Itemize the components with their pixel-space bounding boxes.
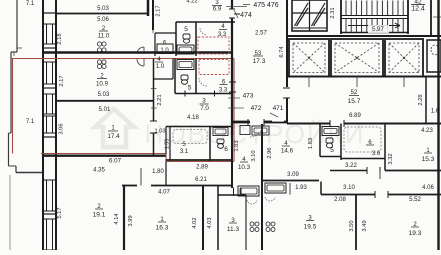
wall rooms 10.9/17.4 [56,100,154,102]
wall between apt1 apt2 [43,51,232,53]
svg-text:6.9: 6.9 [213,6,222,13]
stair tread upper [376,1,378,16]
svg-text:12.4: 12.4 [411,6,425,13]
wall toilet right right-apt [340,124,342,161]
door tick 474 a [234,13,240,15]
door tick hall f [263,119,265,126]
radiator apt2 [97,60,101,64]
vent shaft block [292,0,327,31]
wall above 19.3 a [356,194,375,196]
wall x153 apt2 b [153,133,155,155]
wall loggia outer lower-left [8,133,10,166]
elevator leader 1 [308,77,310,88]
door tick hall b [229,91,236,93]
svg-text:6.07: 6.07 [109,158,122,165]
svg-text:3.10: 3.10 [343,185,355,191]
appliance 2 [265,183,286,193]
door leaf right-apt hall [379,171,381,180]
washing machine right [322,127,339,136]
wall hall right-apt [330,170,367,172]
facade wall left [42,0,44,250]
appliance hall b [252,126,269,135]
svg-text:5: 5 [330,147,334,154]
door tick 474 top [229,8,235,10]
svg-text:7.1: 7.1 [26,119,35,125]
washing machine apt2 [177,60,194,70]
wall hall bottom b [264,121,272,123]
door tick 11.3 a [233,188,235,197]
bathtub right-apt dashed [344,127,381,152]
stair tread lower [366,19,368,33]
svg-text:16.3: 16.3 [156,225,169,232]
window room 10.9 [47,62,53,84]
svg-text:4.18: 4.18 [187,115,199,121]
door tick hall e [247,119,249,126]
door arc apt2 [137,59,144,66]
wall room4 right apt2 [172,59,174,80]
tick loggia2 [13,52,15,56]
door tick hall c [283,87,290,89]
wall x153 apt2 a [153,59,155,122]
washing machine wetblock [213,128,228,136]
wall left of 19.3 [355,195,357,251]
door tick 474 bottom [229,17,235,19]
svg-text:3.06: 3.06 [59,123,65,134]
wall connector [165,162,167,186]
wall loggia outer top-left [16,0,18,52]
svg-text:2.21: 2.21 [157,94,163,105]
door tick 11.3 b [240,188,242,197]
wall hall bottom a [232,121,250,123]
svg-text:4.35: 4.35 [93,168,105,174]
riser circles right [266,222,270,226]
elevator 3 [385,39,423,77]
stair tread lower [397,19,399,33]
svg-text:3.99: 3.99 [128,215,134,226]
red dashed wardrobe 3.3 apt2 [199,60,229,75]
leader 471 [270,113,278,117]
wall x431 top-right [430,0,432,36]
facade tick [43,12,56,14]
elevator 2 [331,39,383,77]
wall room5 left apt1 [175,22,177,56]
door tick corr b [343,120,345,127]
svg-text:5.01: 5.01 [99,107,111,113]
svg-text:472: 472 [251,105,262,112]
wall room 3.3 left apt1 [195,22,197,56]
wall vertical x148 top [147,0,150,16]
facade tick [43,136,56,138]
svg-text:1.83: 1.83 [234,140,240,151]
wall x232 lower [231,135,233,188]
wall hall 19.1 b [151,185,232,187]
stair tread upper [355,1,357,16]
toilet wetblock [217,139,224,144]
svg-text:×: × [402,55,406,62]
svg-text:6: 6 [224,146,228,153]
wall vertical x287 upper [286,0,288,87]
wall loggia step2 [9,132,12,134]
wall wetblock left apt2 [165,127,167,155]
svg-text:2.08: 2.08 [334,197,346,203]
svg-text:17.3: 17.3 [253,58,266,65]
svg-text:19.5: 19.5 [304,224,317,231]
svg-text:5.17: 5.17 [57,207,63,218]
svg-text:5.06: 5.06 [97,17,109,23]
svg-text:10.3: 10.3 [238,164,251,171]
svg-text:14.6: 14.6 [281,148,294,155]
appliance 1 [238,186,259,196]
wall vertical x153 [152,0,154,30]
wall apt2 bottom [43,154,166,156]
svg-text:2.89: 2.89 [196,165,208,171]
wall x426 [425,77,427,124]
svg-text:5: 5 [188,85,192,92]
stair tread lower [345,19,347,33]
red outline apt2 top [11,58,234,60]
svg-text:×: × [355,55,359,62]
leader 472 [228,107,244,109]
watermark [95,109,134,147]
wall below elevators [287,76,441,78]
wall left 11.3 [217,186,219,251]
leader 474 [234,10,238,18]
elevator leader 3 [403,77,405,88]
red dashed wardrobe 3.3 apt1 [198,37,229,54]
wall loggia lower v [15,166,17,173]
bathroom 3.6 right-apt [341,158,385,160]
wall hall 19.1 a [122,185,137,187]
stair tread lower [361,19,363,33]
facade tick [43,47,56,49]
svg-text:4.23: 4.23 [421,128,433,134]
svg-text:5.97: 5.97 [372,27,384,33]
door tick 19.3 b [387,191,389,198]
wall step corridor [320,182,322,195]
svg-text:5.03: 5.03 [98,92,110,98]
door arc room6 apt2 [199,78,207,86]
svg-text:3.22: 3.22 [345,163,357,169]
svg-text:10.9: 10.9 [96,81,109,88]
svg-text:2.57: 2.57 [255,31,267,37]
wall below corridor 52 b [344,123,441,125]
svg-text:3.50: 3.50 [349,220,355,231]
stair tread lower [350,19,352,33]
stair tread lower [355,19,357,33]
svg-text:3.3: 3.3 [218,32,227,38]
red outline apt2 bottom [41,153,166,155]
stair tread lower [376,19,378,33]
svg-text:52: 52 [351,90,358,96]
door tick corr a [329,120,331,127]
svg-text:19.1: 19.1 [93,212,106,219]
wall below corridor 52 a [287,123,330,125]
svg-text:1.93: 1.93 [295,185,307,191]
facade tick [43,213,56,215]
svg-text:4.22: 4.22 [186,0,197,5]
svg-text:3.10: 3.10 [251,150,257,161]
wall room5 left apt2 [174,59,176,94]
leader 473 [228,97,240,99]
toilet apt1 [183,34,190,39]
svg-text:475 476: 475 476 [253,2,278,9]
wall left 16.3 [123,186,125,251]
window room 11.0 [47,24,53,44]
bathtub apt2 dashed [173,130,207,144]
svg-text:4.03: 4.03 [207,217,213,228]
stair tread lower [392,19,394,33]
appliance hall a [240,126,250,135]
elevator leader 2 [356,77,358,88]
wall below 15.3 [385,170,441,172]
door tick hall d [283,97,290,99]
wall room 1.0 left apt1 [154,33,156,56]
wall loggia step [11,51,17,53]
window room 17.4 b [47,116,53,133]
svg-text:×: × [307,55,311,62]
stair tread upper [381,1,383,16]
elevator 1 [289,39,329,77]
dim tick 2.21 a [151,88,157,90]
wall corridor to 19.3 [321,194,356,196]
svg-text:3.6: 3.6 [372,150,381,157]
wall corridor middle [263,180,319,182]
wall wetblock bottom apt2 [166,159,232,161]
toilet apt2 [181,75,188,80]
svg-text:15.3: 15.3 [422,156,435,163]
svg-text:1.0: 1.0 [160,48,169,54]
svg-text:1.55: 1.55 [165,139,171,150]
svg-text:2.18: 2.18 [57,33,63,44]
svg-text:7.1: 7.1 [26,1,35,7]
wall wetblock left2 apt2 [169,127,171,162]
svg-text:5.03: 5.03 [97,6,109,12]
wall top of rooms 5 and 3.3 apt1 [176,21,235,23]
radiator apt1 [97,42,101,46]
bathtub apt1 [177,45,194,54]
door tick apt2 a [150,120,157,122]
line right edge 17 [433,16,441,18]
svg-text:2.17: 2.17 [156,5,162,16]
wall room 1.0 top apt1 [155,32,176,34]
svg-text:474: 474 [240,12,252,19]
wall hall bottom c [284,121,287,123]
red outline apt2 right [233,59,235,162]
wall 16.3/11.3 [202,186,204,251]
stair tread upper [402,1,404,16]
door tick apt2 b [150,132,157,134]
stair tread upper [366,1,368,16]
svg-text:3.3: 3.3 [219,88,228,94]
svg-text:5.52: 5.52 [409,197,421,203]
svg-text:1.80: 1.80 [152,169,164,175]
wall vertical x232 upper a [231,0,233,9]
wall right edge [437,0,439,250]
red outline apt2 jog [165,154,167,162]
stair tread upper [345,1,347,16]
wall under hall a [232,122,250,124]
stair tread lower [387,19,389,33]
wall above 19.3 b [388,194,441,196]
svg-text:3.09: 3.09 [287,172,299,178]
svg-text:473: 473 [243,93,254,100]
svg-text:11.3: 11.3 [227,226,240,233]
line dim left bottom [9,175,11,250]
window room 17.4 a [47,94,53,114]
wall rooms 10.3/14.6 [261,124,263,250]
wall rooms5-6 bottom apt2 [175,93,232,95]
tick wall5-6 a [184,91,186,97]
svg-text:4.02: 4.02 [192,217,198,228]
stair tread upper [392,1,394,16]
appliance arc 2 [265,197,275,201]
door tick right-apt a [379,167,381,174]
dim tick 2.21 b [151,107,157,109]
wall under hall b [264,122,287,124]
door tick hall a [229,81,236,83]
door leaf 19.1 [140,168,142,186]
door arc apt1 [137,47,144,54]
leader 6.9 [226,6,247,8]
door leaf corridor mid [289,183,291,195]
svg-text:6.89: 6.89 [349,113,361,119]
stair arrow [348,23,400,28]
svg-text:1.6: 1.6 [431,109,440,115]
stair tread upper [387,1,389,16]
facade tick [43,154,56,156]
stair tread upper [371,1,373,16]
svg-text:4.14: 4.14 [114,213,120,225]
red outline apt2 left [12,59,14,154]
riser circles left [250,222,254,226]
wall toilet left right-apt [319,124,321,157]
stair tread upper [361,1,363,16]
tick wall5-6 b [214,91,216,97]
appliance arc 1 [247,200,257,204]
toilet right-apt [326,138,333,143]
wall under toilet5 right-apt [320,156,341,158]
svg-text:2.31: 2.31 [330,7,336,18]
tick loggia [17,47,22,49]
svg-text:2.28: 2.28 [418,94,424,105]
stair tread upper [350,1,352,16]
svg-text:6.21: 6.21 [195,177,207,183]
svg-text:2.17: 2.17 [59,75,65,86]
wall vertical x232 upper b [231,18,233,56]
svg-text:6.74: 6.74 [279,46,285,58]
room 1.0 inner box apt1 [157,44,173,54]
svg-text:1.03: 1.03 [155,129,166,135]
svg-text:17.4: 17.4 [107,133,120,140]
svg-text:7.0: 7.0 [200,105,209,112]
svg-text:15.7: 15.7 [348,98,361,105]
door tick right-apt b [366,167,368,174]
svg-text:3.49: 3.49 [362,220,368,231]
svg-text:4.07: 4.07 [158,190,170,196]
svg-text:471: 471 [273,105,284,112]
door tick 19.3 a [374,191,376,198]
wall duct left [245,195,247,250]
svg-text:19.3: 19.3 [409,230,422,237]
wall top apt1 upper [56,13,148,15]
svg-text:1.0: 1.0 [156,64,165,70]
stairwell [340,0,342,34]
stair tread lower [381,19,383,33]
stair tread upper [397,1,399,16]
svg-text:3.32: 3.32 [388,153,394,164]
svg-text:11.0: 11.0 [98,33,110,40]
svg-text:4.06: 4.06 [422,185,434,191]
wall above elevators [287,35,441,37]
stair tread lower [402,19,404,33]
elevator 4 partial [427,40,441,72]
wall loggia bottom [16,172,43,174]
svg-text:2.96: 2.96 [267,147,273,158]
wall vertical x232 hall [231,56,233,135]
wall wetblock divider apt2 [209,127,211,162]
facade tick [43,87,56,89]
door arc 10.3 [250,124,263,137]
wall loggia step3 [9,165,17,167]
svg-text:1.83: 1.83 [308,138,314,149]
wall wetblock top apt2 [166,126,232,128]
wall room4 bottom apt2 [154,78,174,80]
door arc room 3.3 apt1 [200,28,207,35]
stair tread lower [371,19,373,33]
wall top 11.3 [218,194,246,196]
window bottom [47,219,53,250]
wall loggia outer mid-left [10,52,12,133]
wall vertical x287 lower [286,98,288,124]
window room 19.1 [47,180,53,211]
wall rooms5/6 divider apt2 [195,59,197,94]
leader 475 [243,4,250,6]
svg-text:5: 5 [184,26,188,33]
svg-text:3.1: 3.1 [180,149,189,155]
